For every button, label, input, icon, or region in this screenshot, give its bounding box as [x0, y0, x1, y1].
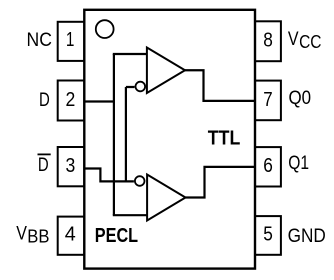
svg-text:7: 7 [263, 89, 272, 111]
svg-text:CC: CC [299, 32, 321, 52]
pin 4 box [58, 217, 85, 255]
pin 6 box [255, 147, 281, 186]
svg-text:PECL: PECL [95, 225, 138, 247]
wire Q1 output to pin 6 [186, 167, 256, 198]
pin-1 indicator circle [96, 20, 114, 38]
wire Dbar branch to top buffer inverting input [126, 87, 135, 183]
label VCC pin 8 [288, 29, 322, 52]
wire D to bottom buffer noninverting input [113, 214, 147, 216]
inverting bubble on U1a input [136, 82, 146, 92]
svg-text:1: 1 [66, 29, 75, 51]
pin 3 box [58, 147, 85, 186]
svg-text:3: 3 [66, 155, 76, 177]
pin 5 box [255, 216, 281, 255]
svg-text:5: 5 [263, 223, 273, 245]
wire D input from pin 2 [84, 100, 114, 102]
svg-text:Q1: Q1 [288, 153, 309, 174]
wire Dbar input from pin 3 [84, 169, 134, 182]
svg-text:8: 8 [263, 30, 273, 52]
pin 8 box [255, 21, 281, 61]
IC body U1 [84, 10, 255, 269]
svg-text:6: 6 [263, 155, 273, 177]
svg-text:4: 4 [65, 223, 76, 245]
pin 1 box [58, 22, 85, 61]
svg-text:NC: NC [27, 30, 52, 51]
label VBB pin 4 [16, 224, 49, 247]
svg-text:TTL: TTL [208, 127, 241, 150]
wire D to top buffer noninverting input [113, 53, 147, 55]
svg-text:D: D [38, 155, 49, 176]
label Dbar pin 3 [38, 154, 51, 175]
inverting bubble on U1b input [135, 176, 145, 186]
svg-text:V: V [288, 29, 299, 50]
svg-text:V: V [16, 224, 27, 245]
wire D vertical bus [113, 54, 115, 215]
buffer U1b (bottom) [147, 175, 185, 221]
pin 2 box [58, 81, 85, 121]
svg-text:2: 2 [66, 89, 76, 111]
svg-text:D: D [39, 90, 50, 111]
svg-text:GND: GND [288, 226, 326, 247]
pin 7 box [255, 81, 281, 121]
svg-text:BB: BB [27, 227, 49, 247]
svg-text:Q0: Q0 [289, 88, 312, 109]
wire Q0 output to pin 7 [185, 70, 255, 101]
buffer U1a (top) [147, 48, 185, 94]
